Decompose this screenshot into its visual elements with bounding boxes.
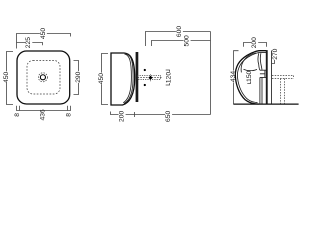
floor line (234, 103, 299, 105)
mixer supply point (148, 76, 152, 80)
svg-text:8: 8 (66, 113, 73, 117)
supply dot top (144, 69, 146, 71)
dim 270 (271, 51, 274, 64)
wall face (266, 50, 268, 104)
svg-text:650: 650 (165, 111, 172, 122)
concealed mixer dashed body (137, 76, 160, 80)
svg-text:200: 200 (119, 111, 126, 122)
dim 200 top (244, 43, 267, 47)
svg-text:450: 450 (98, 73, 105, 84)
trap body (260, 70, 266, 77)
basin rim inner line (237, 53, 266, 103)
svg-text:450: 450 (40, 28, 47, 39)
svg-text:500: 500 (184, 35, 191, 46)
supply dot bottom (144, 84, 146, 86)
svg-text:270: 270 (272, 48, 279, 59)
drain pipe in wall (dashed) (272, 76, 294, 79)
inner bowl wall (241, 53, 256, 72)
svg-text:450: 450 (3, 72, 10, 83)
basin profile outer (235, 51, 266, 104)
dim 450 middle-left (102, 54, 109, 105)
inner bowl bottom (244, 69, 258, 71)
basin inner bowl (hidden, dashed) (27, 61, 60, 95)
wall back line (271, 51, 273, 104)
dim 225 top (17, 43, 43, 46)
dim 200/650 bottom (111, 112, 211, 118)
svg-text:200: 200 (251, 37, 258, 48)
wall line (210, 32, 212, 115)
dim 120 (166, 70, 170, 85)
rim edge arcs (124, 54, 133, 104)
drain hole dashed circle (38, 73, 47, 82)
dim 8/436/8 bottom (17, 106, 71, 111)
svg-text:436: 436 (40, 109, 47, 120)
svg-text:120: 120 (166, 72, 173, 83)
dim 450 top (17, 34, 71, 49)
basin outer rim (plan) (17, 51, 70, 104)
dim 450 left (7, 52, 14, 105)
wall panel bar (136, 52, 139, 102)
dim 600 (146, 32, 211, 47)
dim 500 (152, 41, 211, 47)
drain hole (40, 75, 45, 80)
dim 434 left (234, 51, 239, 104)
basin profile outline (111, 53, 135, 105)
svg-text:290: 290 (75, 71, 82, 82)
svg-text:225: 225 (25, 37, 32, 48)
drain funnel (258, 53, 262, 70)
svg-text:8: 8 (14, 113, 21, 117)
waste pipe (260, 77, 262, 103)
dim 290 right (74, 61, 79, 95)
dim 150 (247, 71, 250, 84)
svg-text:600: 600 (176, 26, 183, 37)
svg-text:150: 150 (246, 70, 253, 81)
